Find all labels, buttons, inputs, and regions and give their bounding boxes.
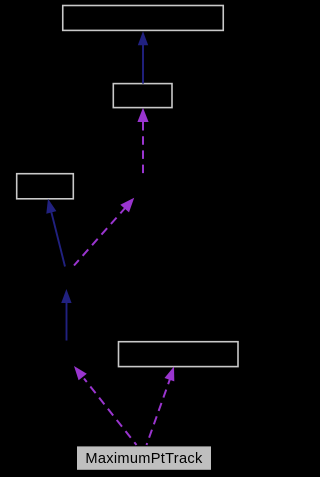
arrow: blue solid inheritance, hidden node2 to hidden node1 <box>61 289 71 341</box>
arrow: purple dashed usage, MaximumPtTrack to hidden node2 <box>74 366 137 445</box>
node: right lower box (empty) <box>119 342 239 367</box>
node: top base class box (empty) <box>63 6 224 31</box>
arrow: blue solid inheritance, hidden node1 to left box <box>46 199 65 267</box>
arrow: purple dashed usage, hidden node3 to second box <box>137 108 148 174</box>
node: second-level box (empty) <box>113 84 172 108</box>
arrow: purple dashed usage, MaximumPtTrack to right lower box <box>147 367 175 446</box>
node: MaximumPtTrack (current class, gray filled) <box>77 446 212 470</box>
arrow: blue solid inheritance, second box to top box <box>138 31 148 83</box>
node: left mid box (empty) <box>17 174 74 199</box>
arrow: purple dashed usage, hidden node1 to hidden node3 <box>74 198 134 266</box>
svg-text:MaximumPtTrack: MaximumPtTrack <box>85 451 203 467</box>
